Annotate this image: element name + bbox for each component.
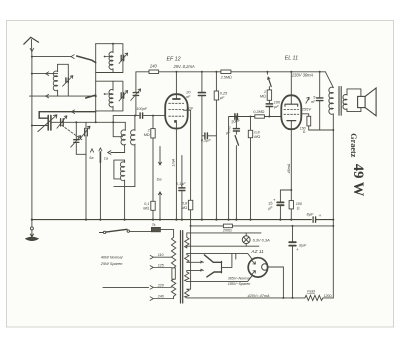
wire: 25uF branch [280, 190, 291, 220]
svg-text:2,5MΩ: 2,5MΩ [220, 75, 232, 79]
svg-text:EF 12: EF 12 [167, 57, 181, 63]
selector bar [221, 261, 223, 273]
contact arrow [46, 94, 49, 98]
tap 240 [150, 297, 174, 301]
power transformer primary winding upper [171, 237, 175, 268]
selector lever 1 [204, 255, 221, 262]
transformer core [339, 87, 341, 116]
svg-text:MΩ: MΩ [144, 133, 150, 137]
wire: EL11 cathode feedback stub [301, 114, 308, 117]
winding selector upper lead [187, 261, 201, 263]
EL11 cathode [287, 120, 296, 122]
wire: 0.8M grid leak column [250, 117, 252, 220]
capacitor 2uF plates [233, 129, 239, 131]
padder column wire [135, 72, 137, 116]
svg-text:0,5µF: 0,5µF [201, 139, 211, 143]
AZ11 anode marks [252, 260, 256, 264]
trimmer C7 plates [85, 128, 88, 135]
arrow 255V [306, 97, 309, 103]
svg-text:40W Normal: 40W Normal [101, 254, 123, 259]
capacitor 20nF coupling plates [235, 114, 238, 120]
tap 110 [150, 255, 171, 259]
IF transformer T2 bracket [114, 160, 125, 179]
trimmer C2 plates [121, 55, 124, 60]
svg-text:0,1: 0,1 [144, 202, 149, 206]
trimmer C6 plates [61, 119, 64, 126]
svg-text:0,8: 0,8 [254, 130, 260, 134]
trimmer C2 arrow [119, 53, 128, 64]
speaker magnet [358, 96, 366, 107]
trimmer C1 arrow [63, 76, 73, 87]
resistor 1MOhm [267, 90, 271, 100]
wire: HV bottom line [187, 297, 333, 299]
wire: trimmer row line [51, 121, 125, 123]
coil L8 secondary [343, 95, 347, 110]
capacitor 8uF series plates [313, 217, 316, 222]
selector lever 2 [207, 272, 222, 277]
trimmer C1 plates [66, 78, 68, 83]
svg-text:20: 20 [185, 91, 191, 95]
svg-text:8µF: 8µF [299, 242, 307, 247]
svg-text:49 W: 49 W [350, 164, 366, 197]
HV winding [185, 289, 189, 298]
coil box frame [58, 64, 69, 96]
tap 220 [150, 286, 171, 290]
resistor 0.1MOhm [151, 201, 155, 210]
wire: 2uF branch [235, 117, 237, 129]
wire: EF12 grid line [113, 115, 165, 117]
variable capacitor C5 plates [48, 115, 51, 130]
coil L4 (IF primary) [121, 122, 125, 145]
svg-text:pF: pF [273, 105, 279, 109]
svg-text:6,3V 0,3A: 6,3V 0,3A [253, 237, 270, 242]
wire: 2M to bus with 0.1M resistor [152, 138, 154, 220]
EF12 anode bar [173, 98, 180, 100]
B-minus return line [192, 225, 333, 227]
switch contact arrow [71, 55, 74, 59]
svg-text:100pF: 100pF [136, 107, 147, 111]
wire: T2 bottom link [114, 187, 135, 220]
oscillator shield box A [96, 44, 123, 73]
wire: 8uF shunt column [292, 226, 294, 298]
wire: L5 down to detector line [134, 145, 136, 187]
mains switch [99, 232, 103, 234]
wire: antenna to wave switch [32, 56, 71, 58]
oscillator shield box B [96, 81, 123, 111]
svg-text:120Ω: 120Ω [324, 294, 333, 298]
resistor 0.25 [214, 91, 218, 100]
heater winding 6.3V [185, 233, 189, 248]
wire: grid line to 2M resistor [152, 116, 154, 129]
svg-text:0,8: 0,8 [182, 201, 188, 205]
resistor 150 Ohm cathode [289, 201, 293, 209]
wire: AZ11 filament top [187, 253, 252, 258]
svg-text:MΩ: MΩ [260, 95, 266, 99]
svg-text:230V 36mA: 230V 36mA [291, 73, 314, 78]
svg-text:Ts: Ts [152, 223, 156, 227]
wire: secondary to voice coil [347, 89, 361, 112]
coil L3 tap [105, 93, 111, 95]
svg-text:8µF: 8µF [307, 211, 315, 216]
svg-text:nF: nF [186, 95, 191, 99]
wire: lamp top line [187, 232, 261, 234]
wire: AZ11 output [268, 267, 283, 298]
svg-text:25W Sparen: 25W Sparen [100, 261, 123, 266]
wire: 1M/100pF to grid line [268, 100, 270, 116]
svg-text:1mA: 1mA [171, 158, 175, 166]
coil L5 (IF secondary) [131, 116, 135, 145]
oscillator left rail [95, 44, 97, 123]
capacitor 0.5uF link [202, 135, 217, 137]
svg-text:Graetz: Graetz [349, 133, 358, 157]
wire: EF12 cathode to bus [175, 123, 177, 220]
wire: left antenna/ground column [31, 57, 33, 220]
resistor 0.8MOhm grid leak [248, 130, 252, 137]
switch lever S2 [86, 95, 96, 98]
capacitor 0.5uF plates [205, 133, 208, 139]
rectifier filament winding [185, 253, 189, 262]
wire: AF takeoff column [229, 117, 235, 220]
switch lever below 2uF [235, 136, 238, 146]
switch lever on B+ rail [266, 72, 268, 74]
IF transformer T1 bracket [113, 116, 122, 137]
svg-text:Feld: Feld [307, 288, 315, 293]
capacitor 20nF plates [198, 93, 205, 96]
svg-text:125: 125 [158, 263, 165, 267]
svg-text:MΩ: MΩ [181, 206, 187, 210]
svg-text:150: 150 [296, 202, 303, 206]
capacitor 0.1uF plates [179, 188, 185, 191]
padder C4 arrow [131, 89, 141, 101]
capacitor 100pF grid [140, 113, 143, 118]
svg-text:240: 240 [157, 295, 165, 299]
svg-text:220: 220 [157, 283, 165, 287]
svg-text:Ω: Ω [303, 130, 306, 134]
speaker cone [365, 88, 376, 116]
power transformer core [181, 231, 183, 303]
svg-text:420V= 47mA: 420V= 47mA [248, 294, 271, 298]
svg-text:200Ω: 200Ω [222, 229, 232, 233]
svg-text:MΩ: MΩ [143, 206, 149, 210]
wire: tone cap column [319, 72, 321, 130]
svg-text:MΩ: MΩ [254, 135, 260, 139]
wire: lamp bottom line [187, 245, 259, 247]
svg-text:Da: Da [157, 177, 162, 181]
contact 1a bar [99, 152, 101, 162]
trimmer C7 stubs [85, 122, 87, 154]
coil L2 tap [105, 56, 111, 58]
svg-text:+: + [319, 213, 322, 218]
wire: feedback bottom link [309, 126, 334, 130]
contact arrow wire to IF coil [108, 145, 125, 155]
contact arrow on bar [72, 110, 75, 114]
padder C4 plates [133, 93, 138, 96]
wire: B+ elbow to output transformer [325, 72, 333, 88]
resistor 200 Ohm [223, 224, 232, 228]
trimmer C7 arrow [80, 126, 90, 139]
svg-text:25V..0,2mA: 25V..0,2mA [173, 64, 195, 69]
wire: EL11 grid line [237, 116, 281, 118]
contact arrow [46, 72, 49, 76]
primary tap box [172, 268, 175, 279]
selector lower lead [187, 269, 201, 271]
wire: screen bypass column [201, 72, 203, 220]
wire: jog to ground column [76, 154, 86, 219]
switch Da lower contact [159, 192, 162, 220]
EF12 cathode dot [174, 120, 177, 123]
contact 5a [90, 149, 93, 152]
wire: EF12 anode to B+ rail [175, 72, 177, 99]
capacitor 25uF plates [277, 202, 283, 205]
pilot lamp [242, 236, 250, 244]
svg-text:100: 100 [274, 100, 281, 104]
resistor feedback [307, 116, 311, 126]
wire: fuse to transformer primary [160, 230, 173, 238]
EL11 anode bar [285, 104, 298, 106]
svg-text:365V~Normal: 365V~Normal [228, 276, 251, 280]
svg-text:46mA: 46mA [287, 163, 291, 173]
svg-text:+: + [296, 247, 299, 252]
wire: AZ11 filament bottom [187, 276, 252, 281]
trimmer C8 arrow [71, 136, 81, 148]
tube EF12 envelope [165, 94, 188, 128]
capacitor 8uF shunt plates [289, 242, 296, 245]
trimmer C3 arrow [119, 91, 128, 102]
wire: screen column to HV winding [187, 210, 191, 289]
svg-text:255V: 255V [301, 106, 312, 111]
svg-text:µF: µF [220, 96, 225, 100]
field coil zigzag [305, 295, 323, 300]
ground bus [32, 219, 333, 221]
wire: bottom of antenna section [30, 95, 96, 97]
switch Da upper contact [159, 146, 162, 165]
svg-text:+: + [273, 197, 276, 202]
contact 1a arrow [99, 148, 102, 151]
wire: EL11 anode to B+ [290, 72, 292, 104]
EL11 grid dashes [284, 108, 299, 110]
trimmer C6 arrow [57, 116, 67, 128]
tube EL11 envelope [281, 95, 301, 129]
svg-text:0,1µF: 0,1µF [176, 182, 186, 186]
ground symbol [31, 220, 33, 227]
coil L6 (IF2) [120, 160, 124, 187]
coil L7 output primary [329, 87, 333, 114]
trimmer C8 stubs [75, 122, 77, 154]
tuning gang bar [39, 112, 95, 119]
svg-text:0,25: 0,25 [220, 92, 228, 96]
antenna [24, 37, 39, 56]
svg-text:110: 110 [158, 253, 165, 257]
trimmer C3 plates [121, 93, 124, 98]
fuse Ts [151, 227, 160, 231]
capacitor 0.1uF column [181, 156, 183, 220]
wire: EL11 cathode column [290, 121, 292, 220]
wire: 0.25 column [215, 72, 217, 220]
svg-text:5a: 5a [89, 156, 93, 160]
coil L1 (antenna coil) [53, 64, 57, 96]
wire: 1a to ground bus [99, 162, 101, 219]
mains lead to 220 tap [103, 286, 149, 288]
coil L3 (osc coil lower) [109, 81, 113, 111]
resistor 0.2MOhm [255, 115, 265, 118]
tap 125 [150, 266, 171, 270]
wire: right main vertical [332, 114, 334, 298]
svg-text:1a: 1a [104, 157, 108, 161]
resistor 240 [149, 70, 159, 74]
capacitor 5nF tone plates [317, 98, 323, 101]
capacitor 100pF anode [266, 104, 272, 107]
svg-text:EL 11: EL 11 [285, 56, 298, 62]
dashed gang coupling [62, 125, 82, 139]
selector output wire [222, 253, 236, 267]
resistor 2.5MOhm [221, 70, 231, 74]
tube AZ11 [248, 258, 267, 277]
wire: left column to C5 [32, 125, 48, 127]
power transformer primary winding lower [171, 279, 175, 298]
wire: EF12 screen stub [184, 110, 191, 200]
svg-text:240: 240 [149, 63, 158, 68]
EF12 grid dashes [169, 102, 184, 104]
switch lever S1 [77, 56, 96, 63]
svg-text:nF: nF [311, 100, 316, 104]
selector winding lower [185, 270, 189, 281]
B+ rail [136, 71, 326, 73]
coil L2 (osc coil upper) [109, 44, 113, 73]
trimmer C8 plates [74, 140, 79, 143]
svg-text:AZ 11: AZ 11 [250, 249, 264, 255]
wire: antenna tap to coil L1 [32, 73, 58, 75]
svg-text:185V~Sparen: 185V~Sparen [228, 282, 251, 286]
svg-text:10V: 10V [186, 106, 193, 110]
svg-text:Ω: Ω [297, 206, 300, 210]
svg-text:1: 1 [264, 90, 266, 94]
resistor 2MOhm [151, 129, 155, 138]
svg-text:0,2MΩ: 0,2MΩ [253, 110, 264, 114]
variable capacitor C5 arrow [38, 115, 57, 132]
resistor 0.8MOhm screen [188, 200, 192, 210]
